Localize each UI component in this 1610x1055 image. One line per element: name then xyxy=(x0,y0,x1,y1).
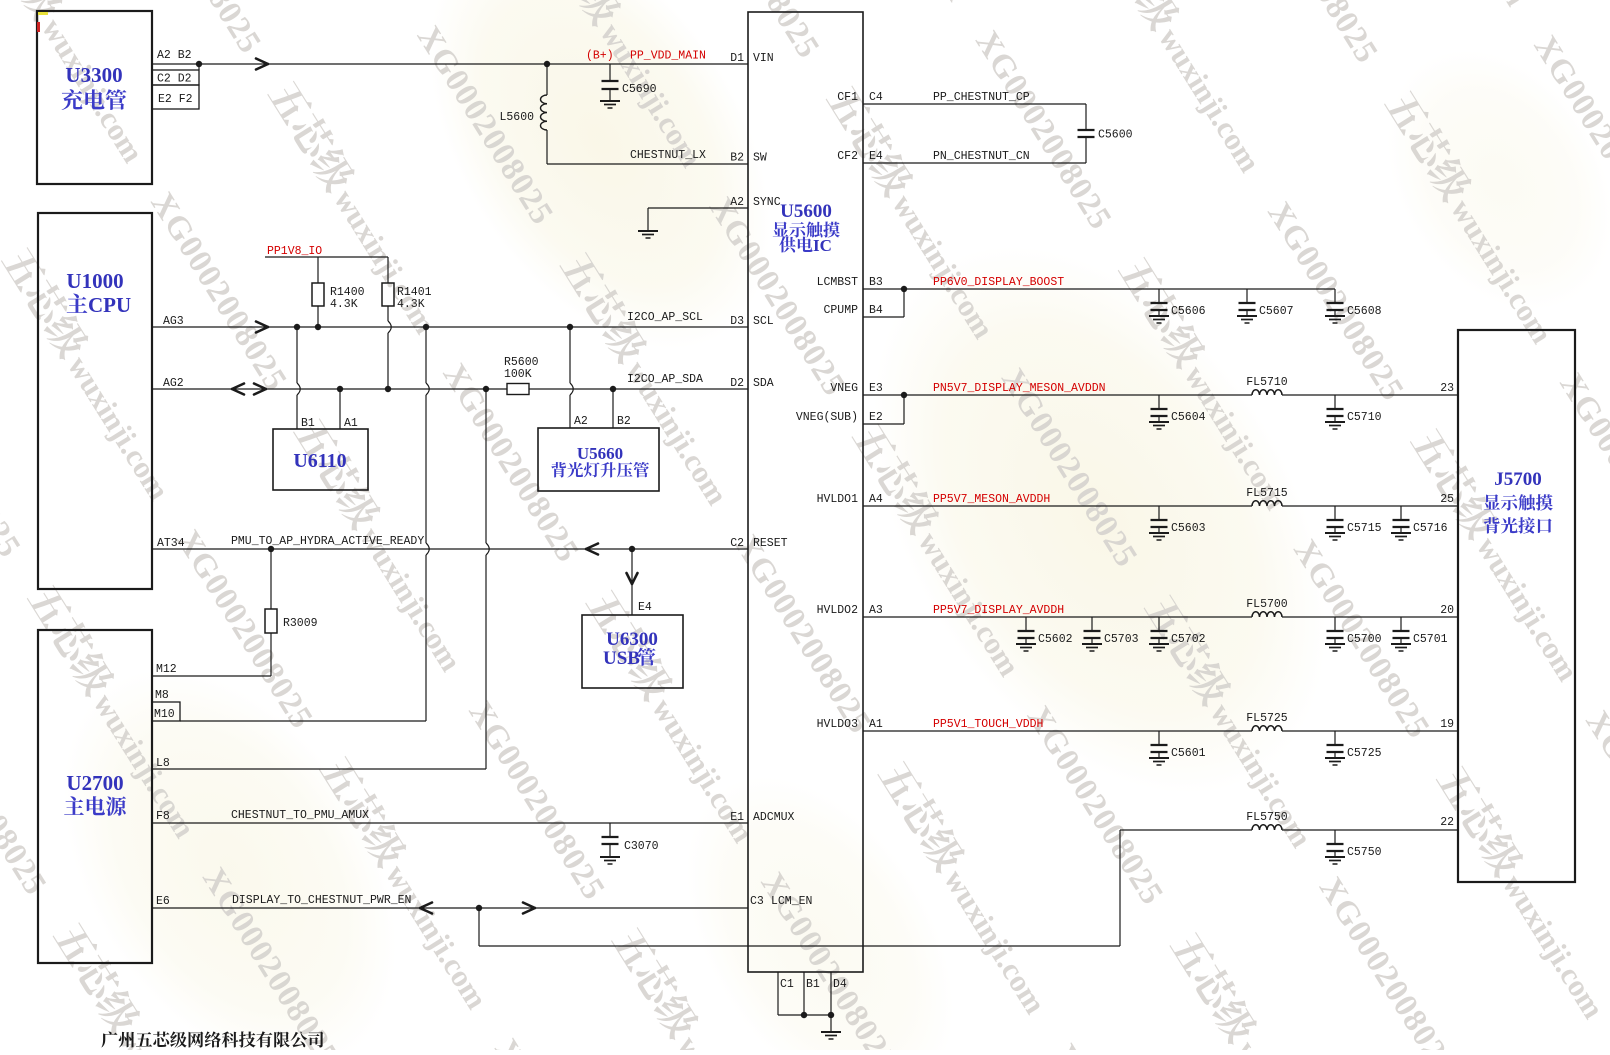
svg-text:PN_CHESTNUT_CN: PN_CHESTNUT_CN xyxy=(933,150,1030,163)
svg-text:CF2: CF2 xyxy=(837,150,858,163)
svg-text:SYNC: SYNC xyxy=(753,196,781,209)
svg-text:C5603: C5603 xyxy=(1171,522,1206,535)
svg-text:C2: C2 xyxy=(730,537,744,550)
svg-text:C1: C1 xyxy=(780,978,794,991)
svg-text:LCMBST: LCMBST xyxy=(817,276,859,289)
svg-text:PP5V7_DISPLAY_AVDDH: PP5V7_DISPLAY_AVDDH xyxy=(933,604,1064,617)
svg-text:B1: B1 xyxy=(301,417,315,430)
svg-text:A1: A1 xyxy=(344,417,358,430)
svg-text:I2CO_AP_SCL: I2CO_AP_SCL xyxy=(627,311,703,324)
svg-text:PP_VDD_MAIN: PP_VDD_MAIN xyxy=(630,50,706,63)
svg-text:SW: SW xyxy=(753,152,767,165)
svg-text:J5700: J5700 xyxy=(1494,469,1542,490)
svg-text:LCM_EN: LCM_EN xyxy=(771,895,812,908)
svg-text:AT34: AT34 xyxy=(157,537,185,550)
svg-text:HVLDO2: HVLDO2 xyxy=(817,604,859,617)
svg-text:B4: B4 xyxy=(869,304,883,317)
svg-text:U2700: U2700 xyxy=(66,771,123,795)
svg-text:C5601: C5601 xyxy=(1171,747,1206,760)
svg-text:C5606: C5606 xyxy=(1171,305,1206,318)
svg-text:PN5V7_DISPLAY_MESON_AVDDN: PN5V7_DISPLAY_MESON_AVDDN xyxy=(933,382,1106,395)
svg-text:22: 22 xyxy=(1440,816,1454,829)
svg-text:RESET: RESET xyxy=(753,537,788,550)
svg-text:C5701: C5701 xyxy=(1413,633,1448,646)
svg-text:FL5710: FL5710 xyxy=(1246,376,1288,389)
svg-text:25: 25 xyxy=(1440,493,1454,506)
svg-text:E6: E6 xyxy=(156,895,170,908)
svg-text:E4: E4 xyxy=(869,150,883,163)
svg-text:U3300: U3300 xyxy=(65,63,122,87)
svg-text:FL5750: FL5750 xyxy=(1246,811,1288,824)
svg-text:ADCMUX: ADCMUX xyxy=(753,811,795,824)
svg-text:A2 B2: A2 B2 xyxy=(157,49,192,62)
svg-text:PP_CHESTNUT_CP: PP_CHESTNUT_CP xyxy=(933,91,1030,104)
svg-text:C5710: C5710 xyxy=(1347,411,1382,424)
svg-text:PMU_TO_AP_HYDRA_ACTIVE_READY: PMU_TO_AP_HYDRA_ACTIVE_READY xyxy=(231,535,424,548)
svg-text:C5604: C5604 xyxy=(1171,411,1206,424)
svg-text:F8: F8 xyxy=(156,810,170,823)
svg-text:B1: B1 xyxy=(806,978,820,991)
svg-text:E2: E2 xyxy=(869,411,883,424)
svg-text:C5600: C5600 xyxy=(1098,129,1133,142)
svg-text:M8: M8 xyxy=(155,689,169,702)
svg-text:VIN: VIN xyxy=(753,52,774,65)
svg-text:C5602: C5602 xyxy=(1038,633,1073,646)
svg-text:U1000: U1000 xyxy=(66,269,123,293)
svg-text:E2 F2: E2 F2 xyxy=(158,93,193,106)
svg-text:(B+): (B+) xyxy=(586,50,614,63)
svg-text:19: 19 xyxy=(1440,718,1454,731)
svg-text:B3: B3 xyxy=(869,276,883,289)
svg-text:A4: A4 xyxy=(869,493,883,506)
svg-text:SDA: SDA xyxy=(753,377,774,390)
svg-text:SCL: SCL xyxy=(753,315,774,328)
svg-text:4.3K: 4.3K xyxy=(330,298,358,311)
svg-text:FL5700: FL5700 xyxy=(1246,598,1288,611)
svg-text:I2CO_AP_SDA: I2CO_AP_SDA xyxy=(627,373,703,386)
svg-text:23: 23 xyxy=(1440,382,1454,395)
svg-text:R3009: R3009 xyxy=(283,617,318,630)
svg-text:U5600: U5600 xyxy=(780,201,832,222)
svg-text:C5702: C5702 xyxy=(1171,633,1206,646)
svg-text:E3: E3 xyxy=(869,382,883,395)
svg-text:A1: A1 xyxy=(869,718,883,731)
svg-text:CHESTNUT_TO_PMU_AMUX: CHESTNUT_TO_PMU_AMUX xyxy=(231,809,369,822)
svg-text:C5700: C5700 xyxy=(1347,633,1382,646)
svg-text:100K: 100K xyxy=(504,368,532,381)
svg-text:CPUMP: CPUMP xyxy=(823,304,858,317)
svg-text:D3: D3 xyxy=(730,315,744,328)
svg-text:DISPLAY_TO_CHESTNUT_PWR_EN: DISPLAY_TO_CHESTNUT_PWR_EN xyxy=(232,894,411,907)
svg-text:CF1: CF1 xyxy=(837,91,858,104)
svg-text:L5600: L5600 xyxy=(499,111,534,124)
svg-text:PP6V0_DISPLAY_BOOST: PP6V0_DISPLAY_BOOST xyxy=(933,276,1064,289)
svg-text:VNEG: VNEG xyxy=(830,382,858,395)
svg-text:C5716: C5716 xyxy=(1413,522,1448,535)
svg-text:C5607: C5607 xyxy=(1259,305,1294,318)
svg-text:HVLDO1: HVLDO1 xyxy=(817,493,859,506)
svg-text:PP1V8_IO: PP1V8_IO xyxy=(267,245,322,258)
svg-text:A2: A2 xyxy=(574,415,588,428)
svg-text:FL5725: FL5725 xyxy=(1246,712,1288,725)
svg-text:4.3K: 4.3K xyxy=(397,298,425,311)
svg-text:L8: L8 xyxy=(156,757,170,770)
svg-text:C5750: C5750 xyxy=(1347,846,1382,859)
svg-text:D4: D4 xyxy=(833,978,847,991)
svg-text:A2: A2 xyxy=(730,196,744,209)
svg-text:AG3: AG3 xyxy=(163,315,184,328)
svg-text:C5715: C5715 xyxy=(1347,522,1382,535)
svg-text:C5608: C5608 xyxy=(1347,305,1382,318)
svg-text:CPU: CPU xyxy=(88,293,131,317)
svg-text:20: 20 xyxy=(1440,604,1454,617)
svg-text:U6110: U6110 xyxy=(293,450,346,472)
svg-text:E4: E4 xyxy=(638,601,652,614)
svg-text:D1: D1 xyxy=(730,52,744,65)
svg-text:HVLDO3: HVLDO3 xyxy=(817,718,859,731)
svg-text:U6300: U6300 xyxy=(606,629,658,650)
svg-text:C5703: C5703 xyxy=(1104,633,1139,646)
svg-text:A3: A3 xyxy=(869,604,883,617)
svg-text:FL5715: FL5715 xyxy=(1246,487,1288,500)
svg-text:AG2: AG2 xyxy=(163,377,184,390)
svg-text:M12: M12 xyxy=(156,663,177,676)
svg-text:PP5V7_MESON_AVDDH: PP5V7_MESON_AVDDH xyxy=(933,493,1050,506)
svg-text:C3: C3 xyxy=(750,895,764,908)
svg-text:IC: IC xyxy=(813,236,832,255)
svg-text:USB: USB xyxy=(603,648,640,669)
svg-text:B2: B2 xyxy=(730,152,744,165)
svg-text:E1: E1 xyxy=(730,811,744,824)
svg-text:C3070: C3070 xyxy=(624,840,659,853)
svg-text:CHESTNUT_LX: CHESTNUT_LX xyxy=(630,149,706,162)
svg-text:C4: C4 xyxy=(869,91,883,104)
svg-text:PP5V1_TOUCH_VDDH: PP5V1_TOUCH_VDDH xyxy=(933,718,1043,731)
svg-text:C5690: C5690 xyxy=(622,83,657,96)
svg-text:C5725: C5725 xyxy=(1347,747,1382,760)
svg-text:U5660: U5660 xyxy=(577,444,623,463)
svg-text:VNEG(SUB): VNEG(SUB) xyxy=(796,411,858,424)
svg-text:D2: D2 xyxy=(730,377,744,390)
svg-text:B2: B2 xyxy=(617,415,631,428)
svg-text:M10: M10 xyxy=(154,708,175,721)
svg-text:C2 D2: C2 D2 xyxy=(157,73,192,86)
